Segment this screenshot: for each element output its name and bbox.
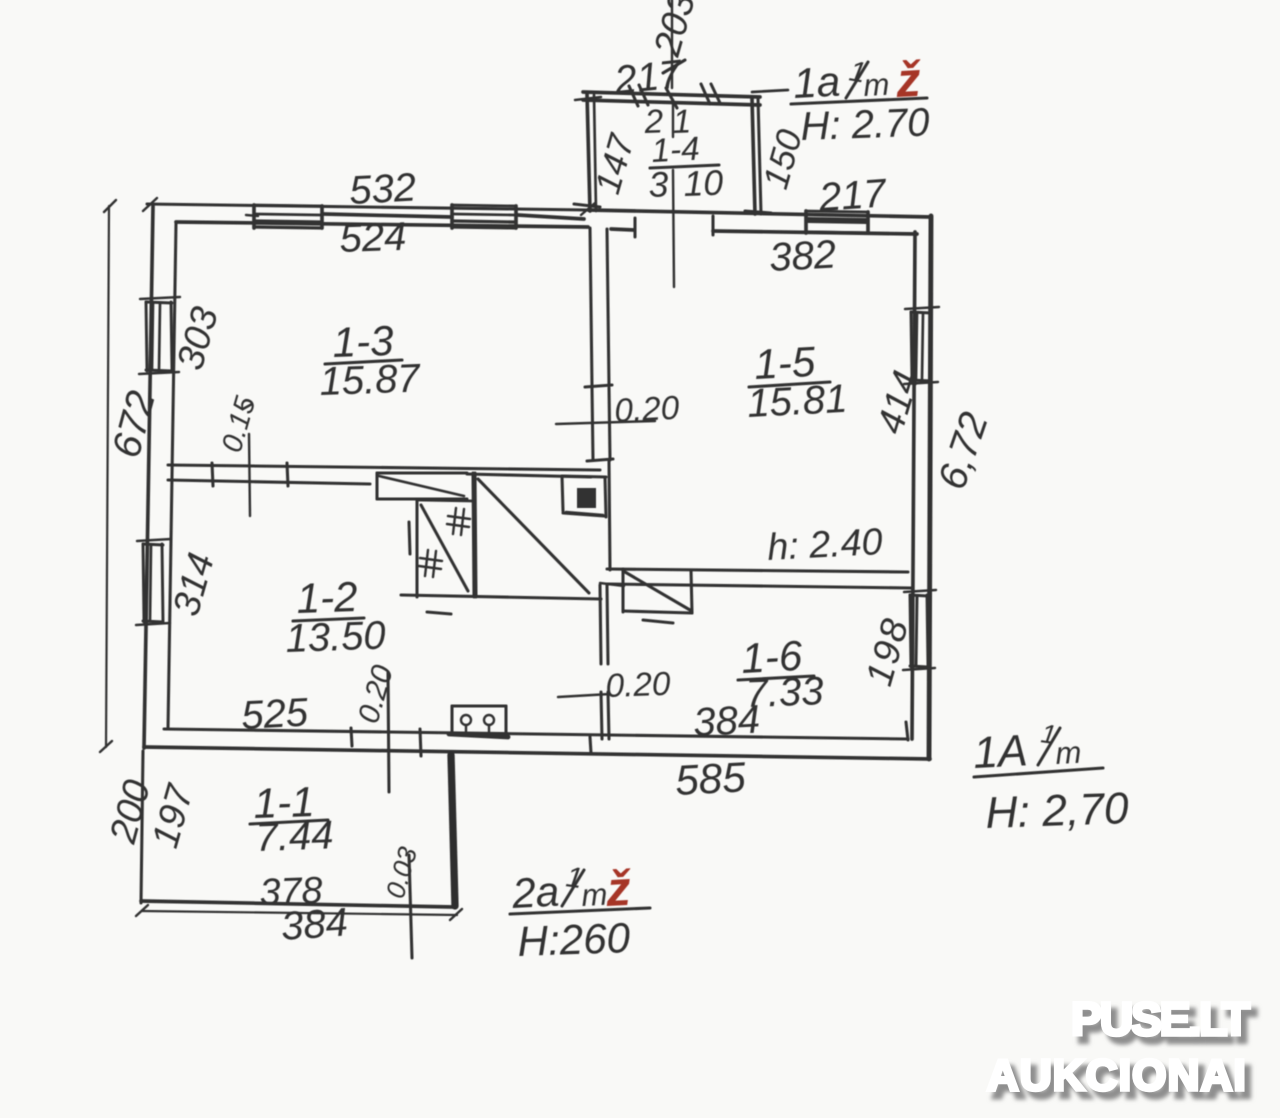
svg-text:7.44: 7.44 — [255, 813, 334, 860]
svg-text:1A: 1A — [972, 726, 1029, 778]
svg-text:15.87: 15.87 — [319, 356, 422, 404]
svg-text:2a: 2a — [510, 868, 560, 917]
svg-text:h: 2.40: h: 2.40 — [766, 520, 883, 568]
svg-text:H: 2,70: H: 2,70 — [985, 784, 1130, 838]
svg-text:384: 384 — [692, 698, 761, 745]
svg-text:ž: ž — [604, 862, 634, 917]
svg-text:382: 382 — [768, 233, 837, 280]
svg-text:m: m — [863, 67, 891, 103]
svg-text:ž: ž — [894, 53, 924, 108]
svg-text:585: 585 — [674, 753, 747, 804]
svg-text:10: 10 — [683, 163, 724, 204]
svg-text:m: m — [581, 877, 609, 913]
svg-text:217: 217 — [817, 171, 889, 220]
svg-text:AUKCIONAI: AUKCIONAI — [987, 1051, 1247, 1100]
svg-text:524: 524 — [339, 215, 407, 261]
svg-text:H: 2.70: H: 2.70 — [800, 101, 930, 149]
svg-text:1a: 1a — [792, 58, 841, 107]
svg-text:PUSE.LT: PUSE.LT — [1071, 993, 1250, 1045]
svg-text:3: 3 — [648, 164, 669, 205]
svg-text:13.50: 13.50 — [285, 614, 387, 661]
svg-text:525: 525 — [240, 691, 310, 738]
svg-text:H:260: H:260 — [517, 914, 632, 965]
svg-text:217: 217 — [611, 52, 685, 103]
svg-text:m: m — [1055, 735, 1083, 771]
svg-text:384: 384 — [280, 900, 350, 949]
svg-text:0.20: 0.20 — [605, 666, 672, 705]
svg-text:0.20: 0.20 — [613, 390, 680, 430]
svg-text:532: 532 — [348, 166, 417, 213]
svg-text:15.81: 15.81 — [746, 377, 848, 426]
